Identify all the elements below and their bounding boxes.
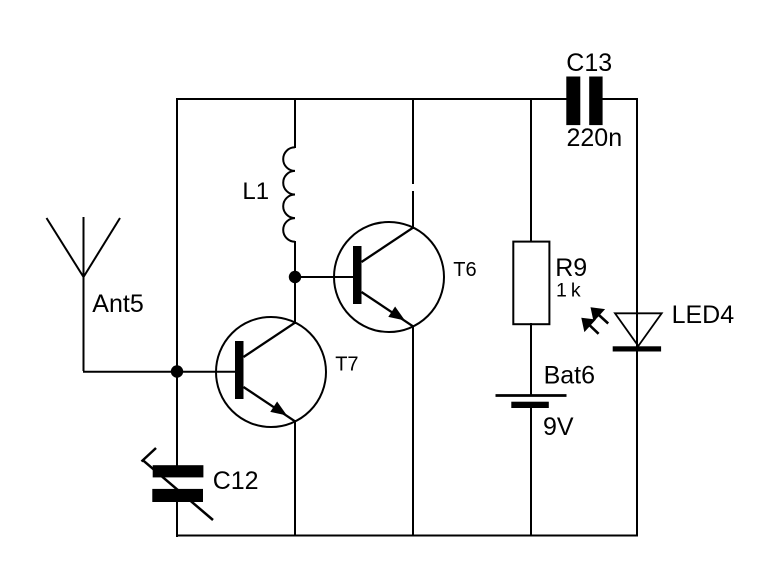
wire R9 to battery xyxy=(530,323,532,396)
svg-text:R9: R9 xyxy=(555,254,587,282)
inductor L1 xyxy=(283,147,295,241)
wire antenna to T7 base xyxy=(83,371,236,373)
svg-text:LED4: LED4 xyxy=(672,301,735,329)
svg-text:L1: L1 xyxy=(242,178,269,205)
wire battery to bottom rail xyxy=(530,407,532,536)
wire left rail lower xyxy=(176,501,178,537)
wire top rail (right of C13) xyxy=(602,98,638,100)
wire T6 base xyxy=(295,276,354,278)
wire T6 collector upper xyxy=(412,99,414,184)
battery Bat6 xyxy=(496,396,567,409)
wire T6 emitter to bottom rail xyxy=(412,326,414,536)
wire right rail lower xyxy=(636,351,638,536)
junction dot at T6 base node xyxy=(289,271,301,283)
LED LED4 xyxy=(613,313,662,351)
wire left rail upper xyxy=(176,98,178,466)
transistor T7 xyxy=(216,317,326,427)
resistor R9 xyxy=(513,242,549,325)
svg-text:C13: C13 xyxy=(566,49,612,77)
capacitor C13 xyxy=(566,77,602,126)
wire bottom rail xyxy=(176,535,638,537)
transistor T6 xyxy=(334,222,444,332)
wire L1 to T7 collector xyxy=(294,241,296,324)
variable capacitor C12 xyxy=(142,448,214,520)
svg-text:1k: 1k xyxy=(556,280,585,302)
LED4 light arrows xyxy=(581,307,608,334)
wire top rail (left of C13) xyxy=(176,98,567,100)
svg-text:T6: T6 xyxy=(453,259,476,281)
junction dot at T7 base node xyxy=(171,365,183,377)
svg-text:Ant5: Ant5 xyxy=(92,290,143,318)
svg-text:Bat6: Bat6 xyxy=(544,361,595,389)
wire battery branch top xyxy=(530,99,532,243)
svg-text:220n: 220n xyxy=(567,124,623,152)
antenna Ant5 xyxy=(47,217,121,371)
wire T7 emitter to bottom rail xyxy=(294,420,296,536)
wire L1 branch top xyxy=(294,99,296,148)
svg-text:T7: T7 xyxy=(335,354,358,376)
wire right rail upper xyxy=(636,98,638,347)
wire T6 collector lower (below small gap) xyxy=(412,191,414,229)
svg-text:9V: 9V xyxy=(543,413,574,441)
svg-text:C12: C12 xyxy=(213,467,259,495)
